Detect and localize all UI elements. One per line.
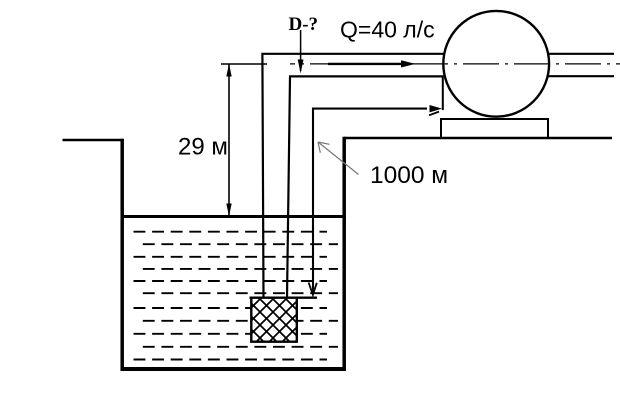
svg-text:1000 м: 1000 м (370, 162, 448, 189)
ground line left (63, 139, 124, 141)
pipe centerline (dimension extension segment) (221, 63, 267, 65)
svg-text:D-?: D-? (289, 14, 319, 35)
strainer (foot valve box) (250, 297, 318, 299)
water dashed hatching (134, 232, 339, 360)
flow arrow Q (328, 63, 403, 65)
svg-text:Q=40 л/с: Q=40 л/с (340, 17, 435, 43)
discharge pipe right of pump (548, 53, 614, 55)
tank right wall / right ground wall (342, 137, 346, 371)
lower pipe polyline with arrows (313, 109, 427, 293)
D-? leader with arrow (300, 30, 302, 71)
pump inlet vertical line (442, 76, 444, 110)
pump pedestal (441, 119, 548, 138)
well left wall / tank left wall (120, 139, 124, 371)
1000 m leader arrow (318, 142, 359, 175)
ground line right (344, 137, 612, 139)
tank bottom (121, 367, 347, 371)
suction pipe inner line (elbow) (287, 76, 444, 298)
pipe centerline dash-dot (290, 63, 620, 65)
svg-text:29 м: 29 м (178, 133, 228, 160)
pump circle (443, 11, 549, 117)
suction pipe outer line (elbow) (261, 54, 444, 298)
dimension line 29 m (228, 64, 230, 216)
water surface line (121, 215, 346, 218)
